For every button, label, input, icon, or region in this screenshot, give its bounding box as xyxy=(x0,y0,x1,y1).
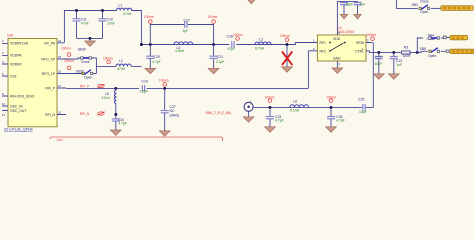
connector conn0 xyxy=(441,6,473,11)
svg-text:RFI_N: RFI_N xyxy=(45,113,55,117)
svg-text:20: 20 xyxy=(58,111,62,115)
node RX left xyxy=(269,106,272,109)
capacitor C18 series xyxy=(232,41,234,48)
node tank right xyxy=(212,43,215,46)
svg-text:C18: C18 xyxy=(227,34,233,38)
IC U4 pin stubs xyxy=(308,30,372,66)
svg-text:100nm: 100nm xyxy=(61,46,71,50)
svg-text:100nm: 100nm xyxy=(64,59,74,63)
svg-text:L6: L6 xyxy=(293,100,297,104)
capacitor C34 xyxy=(112,119,120,121)
wire SB2F to join xyxy=(93,73,97,75)
IC U4 RF switch body xyxy=(317,35,366,61)
capacitor C33 lead xyxy=(269,107,271,126)
svg-text:4.7pF: 4.7pF xyxy=(275,118,284,122)
wire up to SB4 xyxy=(417,38,423,52)
ground below C21 xyxy=(208,68,219,73)
capacitor C13 lead xyxy=(393,52,395,73)
svg-text:BGS12SN6: BGS12SN6 xyxy=(338,30,355,34)
svg-text:C17: C17 xyxy=(376,55,382,59)
svg-text:RFIN: RFIN xyxy=(356,41,364,45)
svg-text:10pF: 10pF xyxy=(346,3,354,7)
capacitor C34 lead xyxy=(115,115,117,131)
connector conn2 xyxy=(450,49,474,53)
svg-text:RFO_XP: RFO_XP xyxy=(41,58,55,62)
no-ERC mark on RFI_P xyxy=(98,84,105,88)
IC U3A right pin stubs xyxy=(57,43,66,115)
svg-text:10nF: 10nF xyxy=(107,22,115,26)
no-ERC mark on RFI_N xyxy=(98,112,105,116)
node C17 xyxy=(377,51,380,54)
svg-text:100nm: 100nm xyxy=(366,33,376,37)
svg-text:100R: 100R xyxy=(403,54,412,58)
inductor L4 xyxy=(174,42,193,45)
capacitor C35 lead xyxy=(330,107,332,126)
svg-text:Close: Close xyxy=(81,60,90,64)
node C10 top xyxy=(101,9,104,12)
svg-text:OSC_IN: OSC_IN xyxy=(10,105,23,109)
svg-text:100n: 100n xyxy=(56,139,63,141)
IC U4 switch glyph xyxy=(331,43,344,50)
ground below C35 xyxy=(326,127,337,132)
svg-text:Close: Close xyxy=(420,0,429,3)
power arrow top mid xyxy=(247,0,256,4)
node tank left xyxy=(149,43,152,46)
svg-text:R3: R3 xyxy=(404,46,408,50)
svg-text:12: 12 xyxy=(2,102,6,106)
svg-text:1nF: 1nF xyxy=(396,63,402,67)
capacitor C17 xyxy=(375,57,383,59)
svg-text:VDDRF: VDDRF xyxy=(10,63,22,67)
wire VDD rail above U4 xyxy=(337,1,357,30)
svg-text:C14: C14 xyxy=(142,79,148,83)
svg-text:SB1F: SB1F xyxy=(78,47,86,51)
svg-text:SB5: SB5 xyxy=(420,47,427,51)
wire pad to conn1 xyxy=(446,36,450,38)
ground below C34 xyxy=(110,130,121,135)
wire SB4 to conn pad xyxy=(441,37,444,39)
svg-text:SMA_T_R (2_N8): SMA_T_R (2_N8) xyxy=(206,111,231,115)
svg-text:2.2pF: 2.2pF xyxy=(216,60,225,64)
ground below node xyxy=(282,67,293,72)
capacitor C19 series on tank rail xyxy=(185,21,187,28)
svg-text:4.7pF: 4.7pF xyxy=(118,122,127,126)
red note box bottom xyxy=(50,137,223,141)
svg-text:VR_PA: VR_PA xyxy=(44,42,56,46)
svg-text:NC: NC xyxy=(170,109,175,113)
svg-text:L1: L1 xyxy=(119,3,123,7)
svg-text:47pF: 47pF xyxy=(228,47,236,51)
svg-text:OSC_OUT: OSC_OUT xyxy=(10,109,26,113)
svg-text:47nF: 47nF xyxy=(81,22,89,26)
svg-text:RF1: RF1 xyxy=(320,41,327,45)
capacitor C17 lead xyxy=(378,52,380,73)
svg-text:10pF: 10pF xyxy=(375,62,383,66)
wire top right drop xyxy=(396,0,417,8)
svg-text:Open: Open xyxy=(428,54,436,58)
ground below C33 xyxy=(265,127,276,132)
IC U3A left pin names xyxy=(10,42,35,113)
ground below J1 xyxy=(248,111,250,117)
solder bridge SB3 open xyxy=(419,5,430,10)
svg-text:L2: L2 xyxy=(119,59,123,63)
wire RFI_P row xyxy=(66,87,308,89)
capacitor C20 xyxy=(146,56,154,58)
capacitor C14 series xyxy=(142,85,144,92)
ground below C13 xyxy=(388,74,399,79)
svg-text:RFI_P: RFI_P xyxy=(45,87,55,91)
IC U3A right pin names xyxy=(41,42,55,118)
capacitor C27 xyxy=(161,111,169,113)
svg-text:1.2pF: 1.2pF xyxy=(140,89,149,93)
solder bridge SB2F open xyxy=(82,70,93,75)
wire main TX rail y44.5 xyxy=(141,43,312,45)
svg-text:23: 23 xyxy=(58,55,62,59)
svg-text:Open: Open xyxy=(84,76,92,80)
wire TX output row xyxy=(96,65,141,67)
inductor L2 xyxy=(116,64,131,66)
wire decoupling bottom rail xyxy=(77,37,103,39)
wire VR_PA up to decoupling rail xyxy=(64,11,116,43)
wire SB3 to conn0 xyxy=(431,7,441,9)
resistor R3 xyxy=(402,51,411,54)
ground below C23 xyxy=(354,14,362,19)
ground below U4 xyxy=(336,66,338,68)
svg-text:U3A: U3A xyxy=(7,34,14,38)
ground below C11 C10 xyxy=(89,38,91,41)
svg-text:1pF: 1pF xyxy=(183,29,189,33)
IC U3A right pin numbers xyxy=(58,39,62,115)
svg-text:24: 24 xyxy=(58,39,62,43)
svg-text:RN+VDD_SDIO: RN+VDD_SDIO xyxy=(10,95,35,99)
svg-text:8.7nH: 8.7nH xyxy=(255,46,265,50)
capacitor C21 xyxy=(210,56,218,58)
node C13 xyxy=(392,51,395,54)
svg-text:10pF: 10pF xyxy=(359,110,367,114)
wire right to SB5 xyxy=(417,51,427,52)
inductor L3 xyxy=(255,42,271,45)
svg-text:C21: C21 xyxy=(217,55,223,59)
wire RF2 down to RX row xyxy=(307,51,309,89)
svg-text:100nm: 100nm xyxy=(159,78,169,82)
node gnd tee xyxy=(89,37,92,40)
connector conn1 xyxy=(450,35,468,39)
IC U4 pin names xyxy=(320,37,365,61)
ground below C22 xyxy=(340,14,348,19)
connector J1 SMA xyxy=(244,102,253,111)
svg-text:C20: C20 xyxy=(154,55,160,59)
svg-text:VDDRF1V8: VDDRF1V8 xyxy=(10,42,28,46)
svg-text:V1S: V1S xyxy=(10,75,17,79)
wire RFO_LP to SB2F xyxy=(62,73,82,75)
capacitor C33 xyxy=(266,117,274,119)
inductor L6 xyxy=(290,105,309,108)
capacitor C21 lead xyxy=(213,45,215,69)
svg-text:21: 21 xyxy=(58,84,62,88)
ground below C20 xyxy=(145,68,156,73)
svg-text:VDDPA: VDDPA xyxy=(10,54,22,58)
node RFI_N tee xyxy=(114,113,117,116)
svg-text:100nm: 100nm xyxy=(233,33,243,37)
svg-text:SB3: SB3 xyxy=(412,3,419,7)
svg-text:RFO_LP: RFO_LP xyxy=(42,72,56,76)
svg-text:S2-LP-Lite_QFN4: S2-LP-Lite_QFN4 xyxy=(4,127,33,131)
svg-text:100nm: 100nm xyxy=(144,15,154,19)
svg-text:4.7pF: 4.7pF xyxy=(152,60,161,64)
solder bridge SB4 closed xyxy=(429,37,440,39)
ground below C27 xyxy=(159,131,170,136)
capacitor C23 xyxy=(354,3,362,5)
inductor L1 xyxy=(116,8,131,10)
svg-text:VDD: VDD xyxy=(333,37,341,41)
svg-text:RF2: RF2 xyxy=(320,49,327,53)
wire tank parallel branch xyxy=(150,25,213,45)
inductor L1 wire xyxy=(132,11,142,45)
wire SB1F to join xyxy=(91,58,96,74)
svg-text:1nF: 1nF xyxy=(360,3,366,7)
svg-text:100nm: 100nm xyxy=(208,15,218,19)
capacitor C22 xyxy=(340,3,348,5)
wire RFO_XP to SB1F xyxy=(62,58,81,59)
solder bridge SB5 open xyxy=(429,48,440,53)
svg-text:9.1nH: 9.1nH xyxy=(290,109,300,113)
wire SB5 to conn2 xyxy=(441,50,447,52)
capacitor C10 xyxy=(99,19,107,21)
capacitor C13 xyxy=(390,57,398,59)
svg-text:RFI_P: RFI_P xyxy=(80,85,89,89)
svg-text:100nm: 100nm xyxy=(280,34,290,38)
wire CTRL row xyxy=(370,51,418,53)
ground below C17 xyxy=(373,74,384,79)
capacitor C35 xyxy=(327,117,335,119)
pad before conn1 xyxy=(443,36,446,39)
capacitor C20 lead xyxy=(149,45,151,69)
svg-text:47nH: 47nH xyxy=(117,67,126,71)
node L5 top xyxy=(114,87,117,90)
svg-text:47nH: 47nH xyxy=(102,96,111,100)
node C11 top xyxy=(75,9,78,12)
IC U3A left pin stubs xyxy=(2,43,8,110)
svg-text:C25: C25 xyxy=(358,97,364,101)
svg-text:100nm: 100nm xyxy=(103,56,113,60)
svg-text:13: 13 xyxy=(2,113,6,117)
node antenna tee xyxy=(286,43,289,46)
capacitor C25 series xyxy=(363,104,365,111)
svg-text:(0402): (0402) xyxy=(170,113,180,117)
capacitor C10 lead xyxy=(102,11,104,39)
svg-text:RFI_N: RFI_N xyxy=(80,112,90,116)
svg-text:22: 22 xyxy=(58,70,62,74)
IC U3A body xyxy=(8,39,57,127)
solder bridge SB1F closed xyxy=(81,57,92,59)
node SB split xyxy=(416,51,419,54)
IC U3A left pin numbers xyxy=(2,39,6,117)
node RX right xyxy=(330,106,333,109)
capacitor C27 lead xyxy=(164,88,166,130)
svg-text:4.6nH: 4.6nH xyxy=(175,49,185,53)
node C27 tee xyxy=(163,87,166,90)
node L1 join xyxy=(140,43,143,46)
svg-text:4.7pF: 4.7pF xyxy=(336,118,345,122)
wire stub to ground under X xyxy=(286,45,288,67)
IC U4 pin numbers xyxy=(313,31,369,66)
svg-text:L3: L3 xyxy=(259,37,263,41)
no-ERC red X xyxy=(282,52,292,66)
capacitor C11 lead xyxy=(76,11,78,39)
svg-text:C17: C17 xyxy=(184,18,190,22)
wire RX row xyxy=(253,43,373,108)
inductor L5 vertical xyxy=(115,90,116,103)
svg-text:GND: GND xyxy=(333,57,341,61)
svg-text:Open: Open xyxy=(420,10,428,14)
capacitor C11 xyxy=(73,19,81,21)
svg-text:47nH: 47nH xyxy=(123,12,132,16)
